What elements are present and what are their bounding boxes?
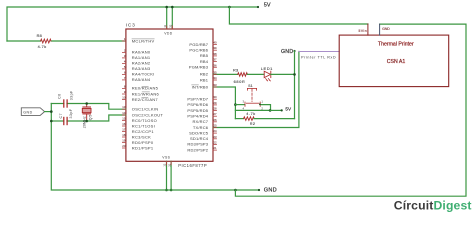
svg-text:13: 13	[122, 105, 126, 109]
node junction flag	[50, 110, 53, 113]
svg-text:39: 39	[213, 46, 217, 50]
resistor R8 4.7k	[41, 39, 51, 43]
node junction VSS 12	[165, 189, 168, 192]
svg-text:40: 40	[213, 41, 217, 45]
svg-text:GND: GND	[382, 27, 390, 31]
svg-text:RC1/T1OSI: RC1/T1OSI	[132, 123, 155, 128]
svg-text:LED1: LED1	[261, 66, 273, 71]
svg-text:15: 15	[122, 117, 126, 121]
svg-text:RA3/AN3: RA3/AN3	[132, 66, 151, 71]
svg-text:PGD/RB7: PGD/RB7	[189, 42, 208, 47]
svg-text:23: 23	[213, 135, 217, 139]
wire VDD pin 11	[166, 7, 168, 29]
svg-text:5V: 5V	[264, 3, 271, 9]
node junction GND branch	[234, 189, 237, 192]
svg-text:35: 35	[213, 70, 217, 74]
svg-text:RC2/CCP1: RC2/CCP1	[132, 129, 155, 134]
svg-text:Q5: Q5	[88, 114, 92, 120]
svg-text:680R: 680R	[234, 80, 246, 84]
resistor R2 4.7k	[235, 118, 243, 120]
node junction 5V branch	[228, 6, 231, 9]
svg-text:PGM/RB3: PGM/RB3	[189, 65, 209, 70]
capacitor C7 33pF	[63, 117, 65, 124]
IC right pin stubs	[213, 45, 217, 151]
svg-text:20MHz: 20MHz	[83, 116, 87, 128]
wire S1 lower cross	[235, 109, 270, 111]
svg-text:21: 21	[213, 146, 217, 150]
svg-text:25: 25	[213, 124, 217, 128]
svg-text:4.7k: 4.7k	[246, 112, 255, 116]
IC right pin numbers	[213, 41, 217, 151]
svg-text:30: 30	[213, 95, 217, 99]
svg-text:CSN A1: CSN A1	[387, 59, 406, 65]
wire VDD pin 32	[171, 7, 173, 29]
IC right pin labels	[187, 42, 208, 153]
node junction C7 rail	[50, 120, 53, 123]
switch S1	[245, 88, 260, 106]
svg-text:RC0/T1OSO: RC0/T1OSO	[132, 118, 157, 123]
wire RB0 to button net	[213, 87, 235, 119]
svg-text:33pF: 33pF	[69, 108, 73, 118]
svg-text:CírcuitDigest: CírcuitDigest	[394, 199, 472, 213]
svg-text:16: 16	[122, 122, 126, 126]
svg-text:29: 29	[213, 101, 217, 105]
pin 5Vin stub	[367, 24, 369, 35]
wire S1 pin2 to 5V	[260, 105, 270, 111]
svg-text:S1: S1	[248, 84, 253, 88]
wire GND return loop	[235, 24, 466, 196]
svg-text:PSP5/RD5: PSP5/RD5	[187, 108, 208, 113]
svg-text:19: 19	[122, 139, 126, 143]
node junction VDD 32	[171, 6, 174, 9]
wire 5V top rail	[7, 7, 258, 41]
LED LED1	[264, 71, 270, 77]
svg-text:38: 38	[213, 52, 217, 56]
wire GND bottom rail	[51, 104, 259, 191]
wire RB2 to R3	[213, 73, 238, 75]
wire LED1 to GND vertical	[271, 73, 295, 75]
wire Printer TTL RxD (purple)	[299, 51, 339, 53]
wire TX/RC6 to printer	[213, 52, 299, 128]
svg-text:26: 26	[213, 118, 217, 122]
svg-text:10: 10	[122, 96, 126, 100]
svg-text:RX/RC7: RX/RC7	[192, 119, 208, 124]
svg-text:RD2/PSP2: RD2/PSP2	[187, 147, 208, 152]
svg-text:RB5: RB5	[200, 53, 209, 58]
op IC3 PIC16F877A box	[126, 29, 213, 161]
svg-text:IC3: IC3	[126, 23, 136, 29]
svg-text:R8: R8	[37, 34, 42, 38]
svg-text:R3: R3	[233, 68, 238, 72]
wire VSS pin 31	[170, 161, 172, 190]
svg-text:RD0/PSP0: RD0/PSP0	[132, 140, 154, 145]
svg-text:RA4/T0CKI: RA4/T0CKI	[132, 72, 155, 77]
wire GND flag to vertical	[45, 111, 52, 113]
svg-text:5V: 5V	[285, 107, 292, 112]
svg-text:R2: R2	[250, 122, 255, 126]
wire MCLR net	[7, 40, 41, 42]
IC left pin numbers	[122, 37, 126, 148]
svg-text:36: 36	[213, 63, 217, 67]
svg-text:RB2: RB2	[200, 72, 209, 77]
wire R2 to GND vertical	[254, 118, 295, 120]
wire S1 pin3	[235, 104, 244, 106]
wire to 5V stub	[270, 109, 282, 111]
svg-text:4.7k: 4.7k	[38, 45, 47, 49]
svg-text:RB4: RB4	[200, 59, 209, 64]
svg-text:RA1/AN1: RA1/AN1	[132, 55, 151, 60]
svg-text:PSP7/RD7: PSP7/RD7	[187, 97, 208, 102]
svg-text:RB1: RB1	[200, 77, 209, 82]
node junction VDD 11	[165, 6, 168, 9]
svg-text:OSC2/CLKOUT: OSC2/CLKOUT	[132, 112, 164, 117]
wire R3 to LED1	[247, 73, 264, 75]
svg-text:33: 33	[213, 83, 217, 87]
svg-text:PIC16F877P: PIC16F877P	[178, 163, 207, 168]
svg-text:34: 34	[213, 76, 217, 80]
wire 5V branch to printer	[229, 7, 368, 24]
svg-text:Printer TTL RxD: Printer TTL RxD	[301, 55, 336, 59]
svg-text:VSS: VSS	[162, 156, 170, 160]
svg-text:C7: C7	[59, 113, 63, 119]
svg-text:28: 28	[213, 107, 217, 111]
crystal Q5 20MHz	[86, 104, 88, 108]
node junction S1 pin3	[234, 103, 237, 106]
svg-text:20: 20	[122, 144, 126, 148]
svg-text:RA2/AN2: RA2/AN2	[132, 61, 151, 66]
svg-text:SDO/RC5: SDO/RC5	[189, 130, 209, 135]
svg-text:GND: GND	[264, 187, 277, 193]
svg-text:GND: GND	[281, 49, 293, 55]
node 5V top terminal dot	[257, 6, 259, 8]
wire OSC2 net	[67, 115, 126, 121]
capacitor C6 33pF	[63, 100, 65, 107]
pin GND stub	[379, 24, 381, 35]
node GND bottom terminal dot	[258, 189, 260, 191]
node 5V switch terminal	[281, 109, 283, 111]
svg-text:18: 18	[122, 133, 126, 137]
svg-text:22: 22	[213, 140, 217, 144]
svg-text:37: 37	[213, 58, 217, 62]
svg-text:PSP4/RD4: PSP4/RD4	[187, 114, 208, 119]
wire VSS pin 12	[166, 161, 168, 190]
svg-text:14: 14	[122, 111, 126, 115]
VDD/VSS red pin stubs	[167, 26, 173, 165]
op thermal printer box	[339, 35, 449, 87]
wire OSC1 net	[67, 104, 126, 110]
svg-text:SD1/RC4: SD1/RC4	[190, 136, 209, 141]
svg-text:VDD: VDD	[164, 31, 173, 35]
node junction VSS 31	[170, 189, 173, 192]
node GND label LED	[293, 50, 295, 52]
svg-text:GND: GND	[23, 111, 33, 115]
svg-text:TX/RC6: TX/RC6	[193, 125, 209, 130]
svg-text:OSC1/CLKIN: OSC1/CLKIN	[132, 107, 159, 112]
svg-text:33pF: 33pF	[69, 90, 73, 100]
svg-text:RA0/AN0: RA0/AN0	[132, 50, 151, 55]
node junction R2/5V	[269, 109, 272, 112]
node junction LED cathode	[293, 73, 296, 76]
resistor R3 680R	[238, 73, 248, 77]
svg-text:24: 24	[213, 129, 217, 133]
VDD/VSS pin numbers	[163, 24, 173, 166]
svg-text:27: 27	[213, 112, 217, 116]
svg-text:5Vin: 5Vin	[358, 29, 367, 33]
ground flag GND left	[21, 108, 44, 116]
svg-text:RA5/AN4: RA5/AN4	[132, 77, 151, 82]
wire GND vertical LED/R2	[294, 51, 296, 119]
svg-text:17: 17	[122, 128, 126, 132]
svg-text:RC3/SCK: RC3/SCK	[132, 134, 151, 139]
svg-text:C6: C6	[58, 93, 62, 98]
IC left pin labels	[132, 38, 164, 150]
IC left pin stubs	[122, 41, 126, 148]
svg-text:PSP6/RD6: PSP6/RD6	[187, 102, 208, 107]
svg-text:Thermal Printer: Thermal Printer	[378, 41, 414, 47]
svg-text:RD1/PSP1: RD1/PSP1	[132, 145, 154, 150]
overlines active-low pins	[132, 39, 199, 98]
svg-text:PGC/RB6: PGC/RB6	[189, 48, 208, 53]
svg-text:RD3/PSP3: RD3/PSP3	[187, 142, 208, 147]
